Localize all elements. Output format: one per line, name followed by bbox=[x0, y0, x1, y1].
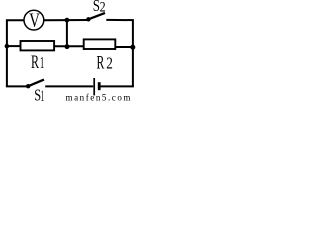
wire vertical from top node to middle node bbox=[66, 20, 68, 46]
svg-text:1: 1 bbox=[41, 88, 45, 102]
resistor R2 bbox=[84, 39, 116, 49]
svg-text:2: 2 bbox=[106, 53, 113, 72]
svg-text:2: 2 bbox=[100, 0, 106, 15]
wire bottom-right from corner to battery bbox=[100, 85, 134, 87]
svg-text:R: R bbox=[31, 52, 39, 73]
label R1 bbox=[31, 52, 44, 73]
wire middle bus between R1 and R2 bbox=[55, 45, 84, 47]
switch S1 blade bbox=[28, 80, 44, 87]
label S1 bbox=[34, 86, 44, 105]
switch S2 blade bbox=[88, 13, 105, 19]
svg-text:V: V bbox=[29, 10, 40, 32]
resistor R1 bbox=[21, 41, 55, 50]
label S2 bbox=[93, 0, 106, 15]
svg-text:R: R bbox=[97, 52, 105, 73]
node D: junction right edge bbox=[130, 45, 135, 50]
wire middle bus left: left edge to R1 bbox=[6, 45, 20, 47]
switch S2 pivot bbox=[86, 17, 90, 21]
wire middle bus right: R2 to right edge bbox=[116, 46, 134, 48]
wire bottom from battery to S1 contact bbox=[45, 85, 93, 87]
wire top-right from S2 contact to right corner and down bbox=[106, 20, 133, 86]
switch S1 pivot bbox=[26, 84, 30, 88]
label R2 bbox=[97, 52, 113, 73]
voltmeter V bbox=[24, 10, 44, 32]
svg-text:1: 1 bbox=[40, 53, 44, 72]
battery cell: short thick plate (negative) bbox=[98, 82, 101, 90]
node C: junction middle bbox=[65, 44, 70, 49]
svg-text:manfen5.com: manfen5.com bbox=[66, 93, 132, 103]
wire bottom-left from S1 pivot to left corner bbox=[6, 85, 28, 87]
node B: junction left edge bbox=[5, 44, 10, 49]
node A: junction top bbox=[65, 18, 70, 23]
battery cell: long plate (positive) bbox=[93, 78, 95, 95]
wire top from voltmeter to S2 pivot bbox=[44, 19, 88, 21]
wire top-left from corner to voltmeter bbox=[7, 20, 24, 86]
